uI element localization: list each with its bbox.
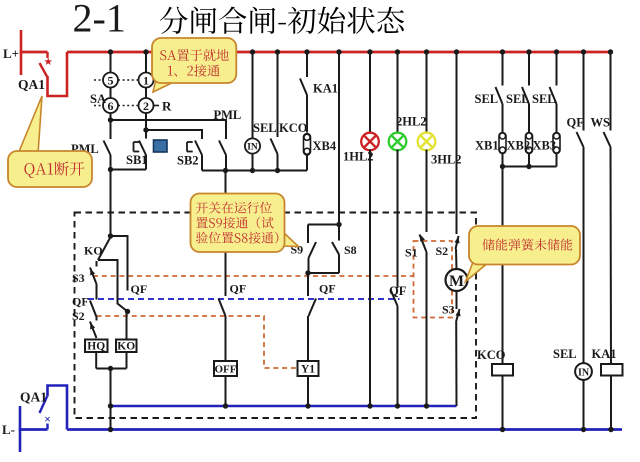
- svg-text:1HL2: 1HL2: [343, 150, 374, 164]
- contact SEL 2: [528, 52, 530, 86]
- svg-text:KO: KO: [84, 244, 103, 258]
- svg-text:SA: SA: [90, 92, 106, 106]
- wire S9/S8 bottom tie: [308, 272, 339, 274]
- switch SA contact 2: [145, 88, 147, 99]
- node SEL branch: [275, 168, 280, 173]
- svg-text:L-: L-: [2, 422, 15, 437]
- wire OFF column: [225, 171, 227, 297]
- callout QA1 kai (QA1断开): [18, 96, 42, 154]
- callout SA note (SA置于就地1、2接通): [153, 79, 180, 92]
- svg-text:2-1: 2-1: [73, 0, 126, 41]
- wire jog KO to QF right branch: [98, 260, 128, 312]
- wire L+ bus left segment: [20, 51, 48, 54]
- node L+ bus / SA5 column: [108, 49, 113, 54]
- svg-text:S1: S1: [405, 246, 418, 260]
- switch S3 (motor): [456, 291, 458, 309]
- svg-text:KA1: KA1: [592, 347, 617, 361]
- svg-text:S2: S2: [72, 309, 85, 323]
- svg-text:QF: QF: [131, 282, 148, 296]
- node L+ bus / motor column: [454, 49, 459, 54]
- svg-text:5: 5: [108, 74, 114, 88]
- svg-text:KO: KO: [117, 341, 135, 353]
- switch S3 (left): [96, 261, 98, 267]
- link XB3: [553, 133, 560, 154]
- lamp 3HL2 (yellow): [426, 52, 428, 134]
- node 1HL2 on tie: [367, 403, 372, 408]
- node L+ bus / 3HL2 column: [424, 49, 429, 54]
- lamp 2HL2 (green): [397, 52, 399, 134]
- contact SEL 3: [556, 52, 558, 86]
- contact KO: [98, 237, 111, 260]
- svg-text:QA1: QA1: [20, 390, 47, 405]
- switch S8: [338, 225, 340, 241]
- wire tie SA6 to PML right: [111, 120, 227, 139]
- link XB1: [499, 133, 506, 154]
- svg-text:SEL: SEL: [475, 92, 499, 106]
- wire QA1 return loop: [48, 52, 68, 96]
- svg-text:★: ★: [43, 57, 53, 68]
- wire KCO column: [502, 167, 504, 365]
- wire down to KO node: [110, 170, 112, 237]
- svg-text:SEL: SEL: [506, 92, 530, 106]
- switch S2 (motor): [456, 236, 459, 249]
- interlock dashed boundary box: [75, 213, 477, 419]
- node OFF on tie: [223, 403, 228, 408]
- svg-text:L+: L+: [3, 46, 19, 61]
- switch SA contact 1: [145, 52, 147, 73]
- wire HQ/KO bottom tie: [96, 368, 126, 370]
- breaker QA1 (bottom, open): [46, 424, 48, 430]
- switch SA contact 6: [110, 88, 112, 99]
- link XB4: [304, 134, 311, 156]
- wire blue collector tie: [111, 405, 457, 407]
- svg-text:SB2: SB2: [177, 154, 199, 168]
- wire S9/S8 top tie: [308, 224, 339, 226]
- svg-text:S3: S3: [72, 271, 85, 285]
- SA dotted couplings: [94, 79, 103, 81]
- wire L- main bus: [67, 428, 622, 431]
- svg-text:HQ: HQ: [87, 341, 105, 353]
- label R: [154, 105, 159, 107]
- L- rail terminal: [19, 406, 22, 452]
- node L+ bus / 1HL2 column: [367, 49, 372, 54]
- node IN branch: [250, 168, 255, 173]
- orange dashed link S2 to Y1: [97, 316, 298, 368]
- breaker QA1 (top, open): [46, 52, 48, 58]
- contact QF (KO branch): [111, 236, 128, 291]
- contact PML (left): [110, 120, 112, 139]
- contact SEL 1: [502, 52, 504, 86]
- switch SA contact 5: [110, 52, 112, 73]
- svg-text:QF: QF: [230, 282, 247, 296]
- svg-text:XB2: XB2: [507, 139, 531, 153]
- svg-text:KA1: KA1: [313, 82, 338, 96]
- lamp IN (SEL column): [252, 52, 254, 139]
- link XB2: [526, 133, 533, 154]
- node under SA2: [145, 113, 147, 130]
- svg-text:QF: QF: [319, 282, 336, 296]
- svg-text:1: 1: [143, 74, 149, 88]
- node L+ bus / QF column: [581, 49, 586, 54]
- svg-text:QF: QF: [567, 116, 585, 130]
- wire SB2 row bottom tie: [202, 170, 307, 172]
- coil Y1: [298, 361, 319, 376]
- indicator blue square: [154, 140, 168, 152]
- wire XB bottom tie: [503, 166, 557, 168]
- node 2HL2 on tie: [395, 403, 400, 408]
- wire down to L-: [110, 369, 112, 430]
- svg-text:QF: QF: [72, 295, 89, 309]
- contact QF (right): [583, 52, 585, 131]
- wire L+ main bus: [67, 51, 611, 54]
- svg-text:IN: IN: [247, 143, 258, 153]
- svg-text:×: ×: [44, 412, 51, 426]
- svg-text:XB4: XB4: [313, 139, 337, 153]
- wire QA1 bottom return loop: [48, 386, 68, 430]
- contact WS: [610, 52, 612, 131]
- node L+ bus / 2HL2 column: [395, 49, 400, 54]
- node L+ bus / WS column: [608, 49, 613, 54]
- callout spring note (储能弹簧未储能): [466, 262, 490, 282]
- callout S9 note (开关在运行位置S9接通): [283, 232, 299, 247]
- svg-text:SEL: SEL: [253, 121, 277, 135]
- svg-text:KCO: KCO: [279, 121, 308, 135]
- L+ rail terminal: [20, 30, 23, 75]
- svg-text:KCO: KCO: [477, 348, 506, 362]
- contact KA1: [306, 52, 308, 77]
- contact QF (HQ branch): [90, 301, 97, 318]
- svg-text:S8: S8: [344, 243, 357, 257]
- orange dashed box around S1 S2: [414, 241, 453, 318]
- wire column from bus to S9/S8: [338, 52, 340, 225]
- svg-text:SB1: SB1: [126, 153, 148, 167]
- switch S2 (left): [90, 322, 97, 339]
- svg-text:S2: S2: [436, 244, 449, 258]
- node L+ bus / SEL2 column: [526, 49, 531, 54]
- svg-text:SEL: SEL: [553, 347, 577, 361]
- node L+ bus / S9S8 column: [336, 49, 341, 54]
- contact QF (green lamp column): [391, 290, 398, 307]
- contact PML (right): [219, 141, 226, 156]
- svg-text:OFF: OFF: [215, 364, 237, 376]
- title text: [160, 7, 404, 34]
- orange dashed link S3 to S9 node: [93, 275, 414, 277]
- node L+ bus / KA1 column: [304, 49, 309, 54]
- wire PML-SB1 bottom tie: [111, 169, 147, 171]
- svg-text:QF: QF: [389, 284, 407, 298]
- coil KO: [126, 312, 128, 340]
- svg-text:2: 2: [143, 99, 149, 113]
- svg-text:S3: S3: [442, 303, 455, 317]
- switch S9 (closed): [307, 225, 309, 244]
- pushbutton SB1: [145, 130, 147, 139]
- node OFF branch: [223, 168, 228, 173]
- node L+ bus / SA1 column: [143, 49, 148, 54]
- svg-text:XB1: XB1: [475, 139, 499, 153]
- node under SA6: [110, 113, 112, 120]
- node 3HL2 on tie: [424, 403, 429, 408]
- wire L- bus left segment: [19, 428, 48, 431]
- coil KA1 (bottom): [601, 364, 623, 376]
- svg-text:6: 6: [108, 99, 114, 113]
- svg-text:R: R: [162, 99, 172, 114]
- svg-text:IN: IN: [578, 368, 590, 379]
- contact QF (OFF branch): [219, 299, 226, 317]
- node L+ bus / KCO column: [275, 49, 280, 54]
- svg-text:PML: PML: [214, 108, 242, 122]
- node L+ bus / SEL3 column: [554, 49, 559, 54]
- contact QF (Y1 branch): [307, 273, 309, 296]
- wire motor column from bus: [456, 52, 458, 234]
- contact S1: [420, 235, 427, 253]
- lamp 1HL2 (red): [369, 52, 371, 134]
- node L+ bus / SEL-IN column: [250, 49, 255, 54]
- coil HQ: [85, 340, 108, 353]
- svg-text:QA1: QA1: [18, 77, 45, 92]
- blue dashed link QF row: [88, 298, 400, 300]
- svg-text:M: M: [449, 273, 464, 290]
- svg-text:2HL2: 2HL2: [396, 115, 427, 129]
- contact KCO: [277, 52, 279, 137]
- coil OFF: [214, 361, 237, 376]
- svg-text:WS: WS: [591, 116, 611, 130]
- lamp IN (bottom SEL): [575, 363, 592, 380]
- pushbutton SB2: [195, 141, 202, 156]
- coil KCO: [492, 364, 513, 376]
- wire tie SA2 to SB2: [146, 130, 202, 139]
- node Y1 on tie: [305, 403, 310, 408]
- motor M: [446, 269, 468, 291]
- svg-text:Y1: Y1: [301, 364, 315, 376]
- svg-text:SEL: SEL: [532, 92, 556, 106]
- svg-text:XB3: XB3: [533, 139, 557, 153]
- node L+ bus / SEL1 column: [500, 49, 505, 54]
